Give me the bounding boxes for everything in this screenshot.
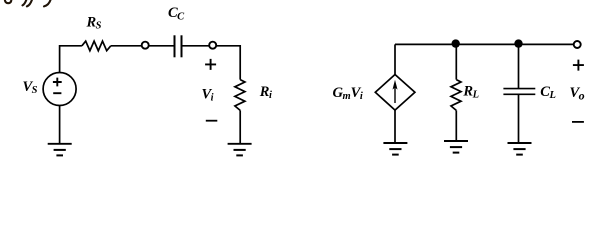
label Vo minus (572, 121, 584, 123)
capacitor CC (175, 35, 182, 57)
arrow inside source (393, 80, 398, 103)
wire source bottom to ground (394, 110, 396, 143)
resistor RL (451, 80, 461, 111)
voltage source VS (43, 73, 76, 106)
node (open circle) left of CC (142, 42, 149, 49)
ground under CL (508, 143, 532, 155)
capacitor CL (503, 89, 535, 95)
junction dot at CL (514, 39, 522, 47)
terminal Vo (open circle) (574, 41, 581, 48)
label Vi minus (206, 120, 218, 122)
wire Ri to ground (239, 110, 241, 143)
ground under source (383, 143, 407, 155)
node (open circle) right of CC (209, 42, 216, 49)
wire VS bottom to ground (59, 106, 61, 144)
ground under Ri (228, 144, 252, 156)
wire VS top to RS (60, 46, 82, 73)
wire CC to node (183, 45, 210, 47)
ground under VS (48, 144, 72, 156)
junction dot at RL (452, 39, 460, 47)
wire RS to node (111, 45, 142, 47)
resistor Ri (235, 80, 245, 111)
dependent current source GmVi (diamond) (375, 75, 415, 111)
svg-text:Vo: Vo (570, 85, 585, 102)
wire junction to CL (518, 44, 520, 88)
wire node to Ri top (216, 46, 240, 80)
wire source top to rail (394, 44, 396, 74)
resistor RS (82, 41, 111, 51)
wire RL to ground (455, 110, 457, 141)
label Vo plus (573, 60, 584, 71)
wire node to CC (149, 45, 174, 47)
wire junction to RL (455, 44, 457, 79)
ground under RL (444, 141, 468, 153)
top rail right circuit (395, 43, 573, 45)
cropped text artifact top-left (5, 0, 51, 6)
wire CL to ground (518, 94, 520, 143)
label Vi plus (205, 59, 216, 70)
